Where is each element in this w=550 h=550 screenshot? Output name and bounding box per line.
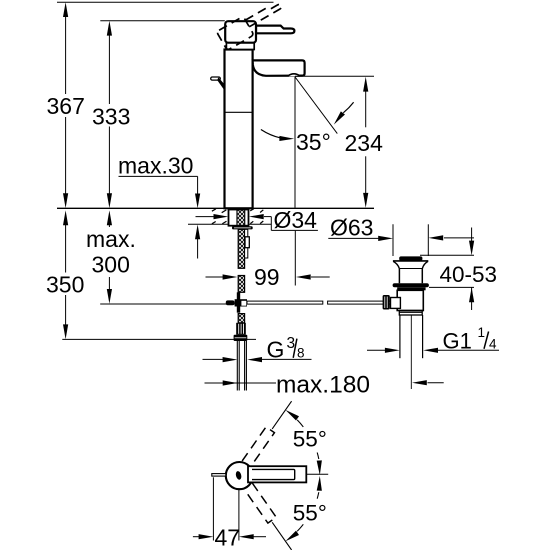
svg-text:40-53: 40-53	[440, 262, 498, 287]
waste flange seam	[399, 268, 422, 270]
handle raised dashed	[216, 0, 287, 50]
svg-text:max.30: max.30	[118, 153, 193, 179]
dim 367	[57, 2, 274, 197]
waste washer	[393, 283, 429, 287]
dim 40-53	[420, 228, 474, 311]
svg-text:Ø63: Ø63	[330, 214, 373, 240]
deck underside line left	[188, 223, 229, 225]
dim 350	[62, 222, 256, 339]
35deg arc left	[261, 130, 281, 139]
waste neck	[399, 269, 422, 284]
dim 35deg	[295, 77, 338, 134]
body seam line	[225, 111, 252, 113]
waste lever block	[391, 298, 401, 309]
svg-text:35°: 35°	[296, 129, 331, 155]
faucet body	[225, 50, 253, 209]
svg-text:G1: G1	[443, 328, 472, 353]
handle lever solid	[225, 21, 294, 43]
dim max.300	[100, 222, 236, 304]
dashed lever down	[244, 483, 297, 550]
dim 47	[193, 477, 266, 540]
dashed lever up	[242, 398, 295, 467]
svg-text:8: 8	[297, 346, 305, 361]
deck hatching left	[212, 209, 227, 224]
svg-text:99: 99	[254, 264, 280, 290]
top view circle	[226, 462, 253, 489]
svg-text:max.: max.	[86, 226, 136, 252]
spout	[253, 60, 305, 75]
threaded shank lower	[238, 314, 244, 323]
svg-text:367: 367	[47, 93, 85, 119]
waste bottom nut	[399, 311, 422, 316]
top view lever	[248, 466, 306, 482]
horizontal pop-up linkage rod	[247, 301, 391, 304]
threaded shank upper	[238, 229, 244, 292]
pop-up rod side lever	[211, 77, 225, 90]
svg-text:234: 234	[345, 130, 384, 156]
waste lever knob	[383, 295, 390, 310]
rod clamp block	[226, 292, 247, 312]
waste flange brim	[393, 260, 428, 262]
countertop deck line	[57, 207, 374, 209]
dim max.180	[205, 382, 444, 384]
top view pin	[235, 470, 242, 480]
55deg lower arc	[284, 476, 327, 544]
deck underside line right	[249, 223, 272, 225]
svg-text:55°: 55°	[293, 501, 327, 526]
supply hose	[237, 341, 246, 391]
waste centerline	[410, 315, 412, 389]
cartridge collar cap	[226, 43, 254, 50]
svg-text:55°: 55°	[293, 426, 327, 451]
svg-text:max.180: max.180	[276, 372, 370, 399]
top view rod	[212, 474, 226, 477]
svg-text:350: 350	[46, 272, 84, 298]
dim G1 1/4	[367, 349, 499, 351]
svg-text:47: 47	[215, 525, 241, 550]
water stream centerline	[294, 77, 296, 208]
55deg upper arc	[284, 408, 327, 476]
waste flange dome	[399, 256, 422, 260]
waste flange flare sides	[393, 261, 428, 268]
svg-text:300: 300	[92, 252, 130, 278]
dim 234	[295, 76, 374, 194]
pop-up vertical rod	[245, 229, 250, 258]
supply connector knurled	[236, 323, 246, 335]
base flange washer	[232, 226, 253, 229]
aerator	[289, 74, 299, 77]
35deg arc right	[343, 102, 353, 113]
svg-text:3: 3	[287, 335, 296, 352]
mounting nut	[229, 210, 249, 226]
waste body	[397, 290, 423, 310]
dim 333	[100, 21, 225, 197]
svg-text:1: 1	[478, 325, 486, 340]
svg-text:333: 333	[92, 104, 130, 130]
supply connector nut	[234, 335, 248, 341]
top view centerline	[307, 473, 329, 475]
waste tailpipe	[400, 315, 423, 358]
dim G3/8	[203, 358, 312, 360]
svg-text:G: G	[267, 336, 285, 362]
svg-text:Ø34: Ø34	[274, 207, 318, 233]
svg-text:4: 4	[489, 336, 497, 351]
dim Ø34	[196, 217, 318, 231]
deck hatching right	[250, 209, 263, 224]
dim 99	[206, 276, 330, 278]
